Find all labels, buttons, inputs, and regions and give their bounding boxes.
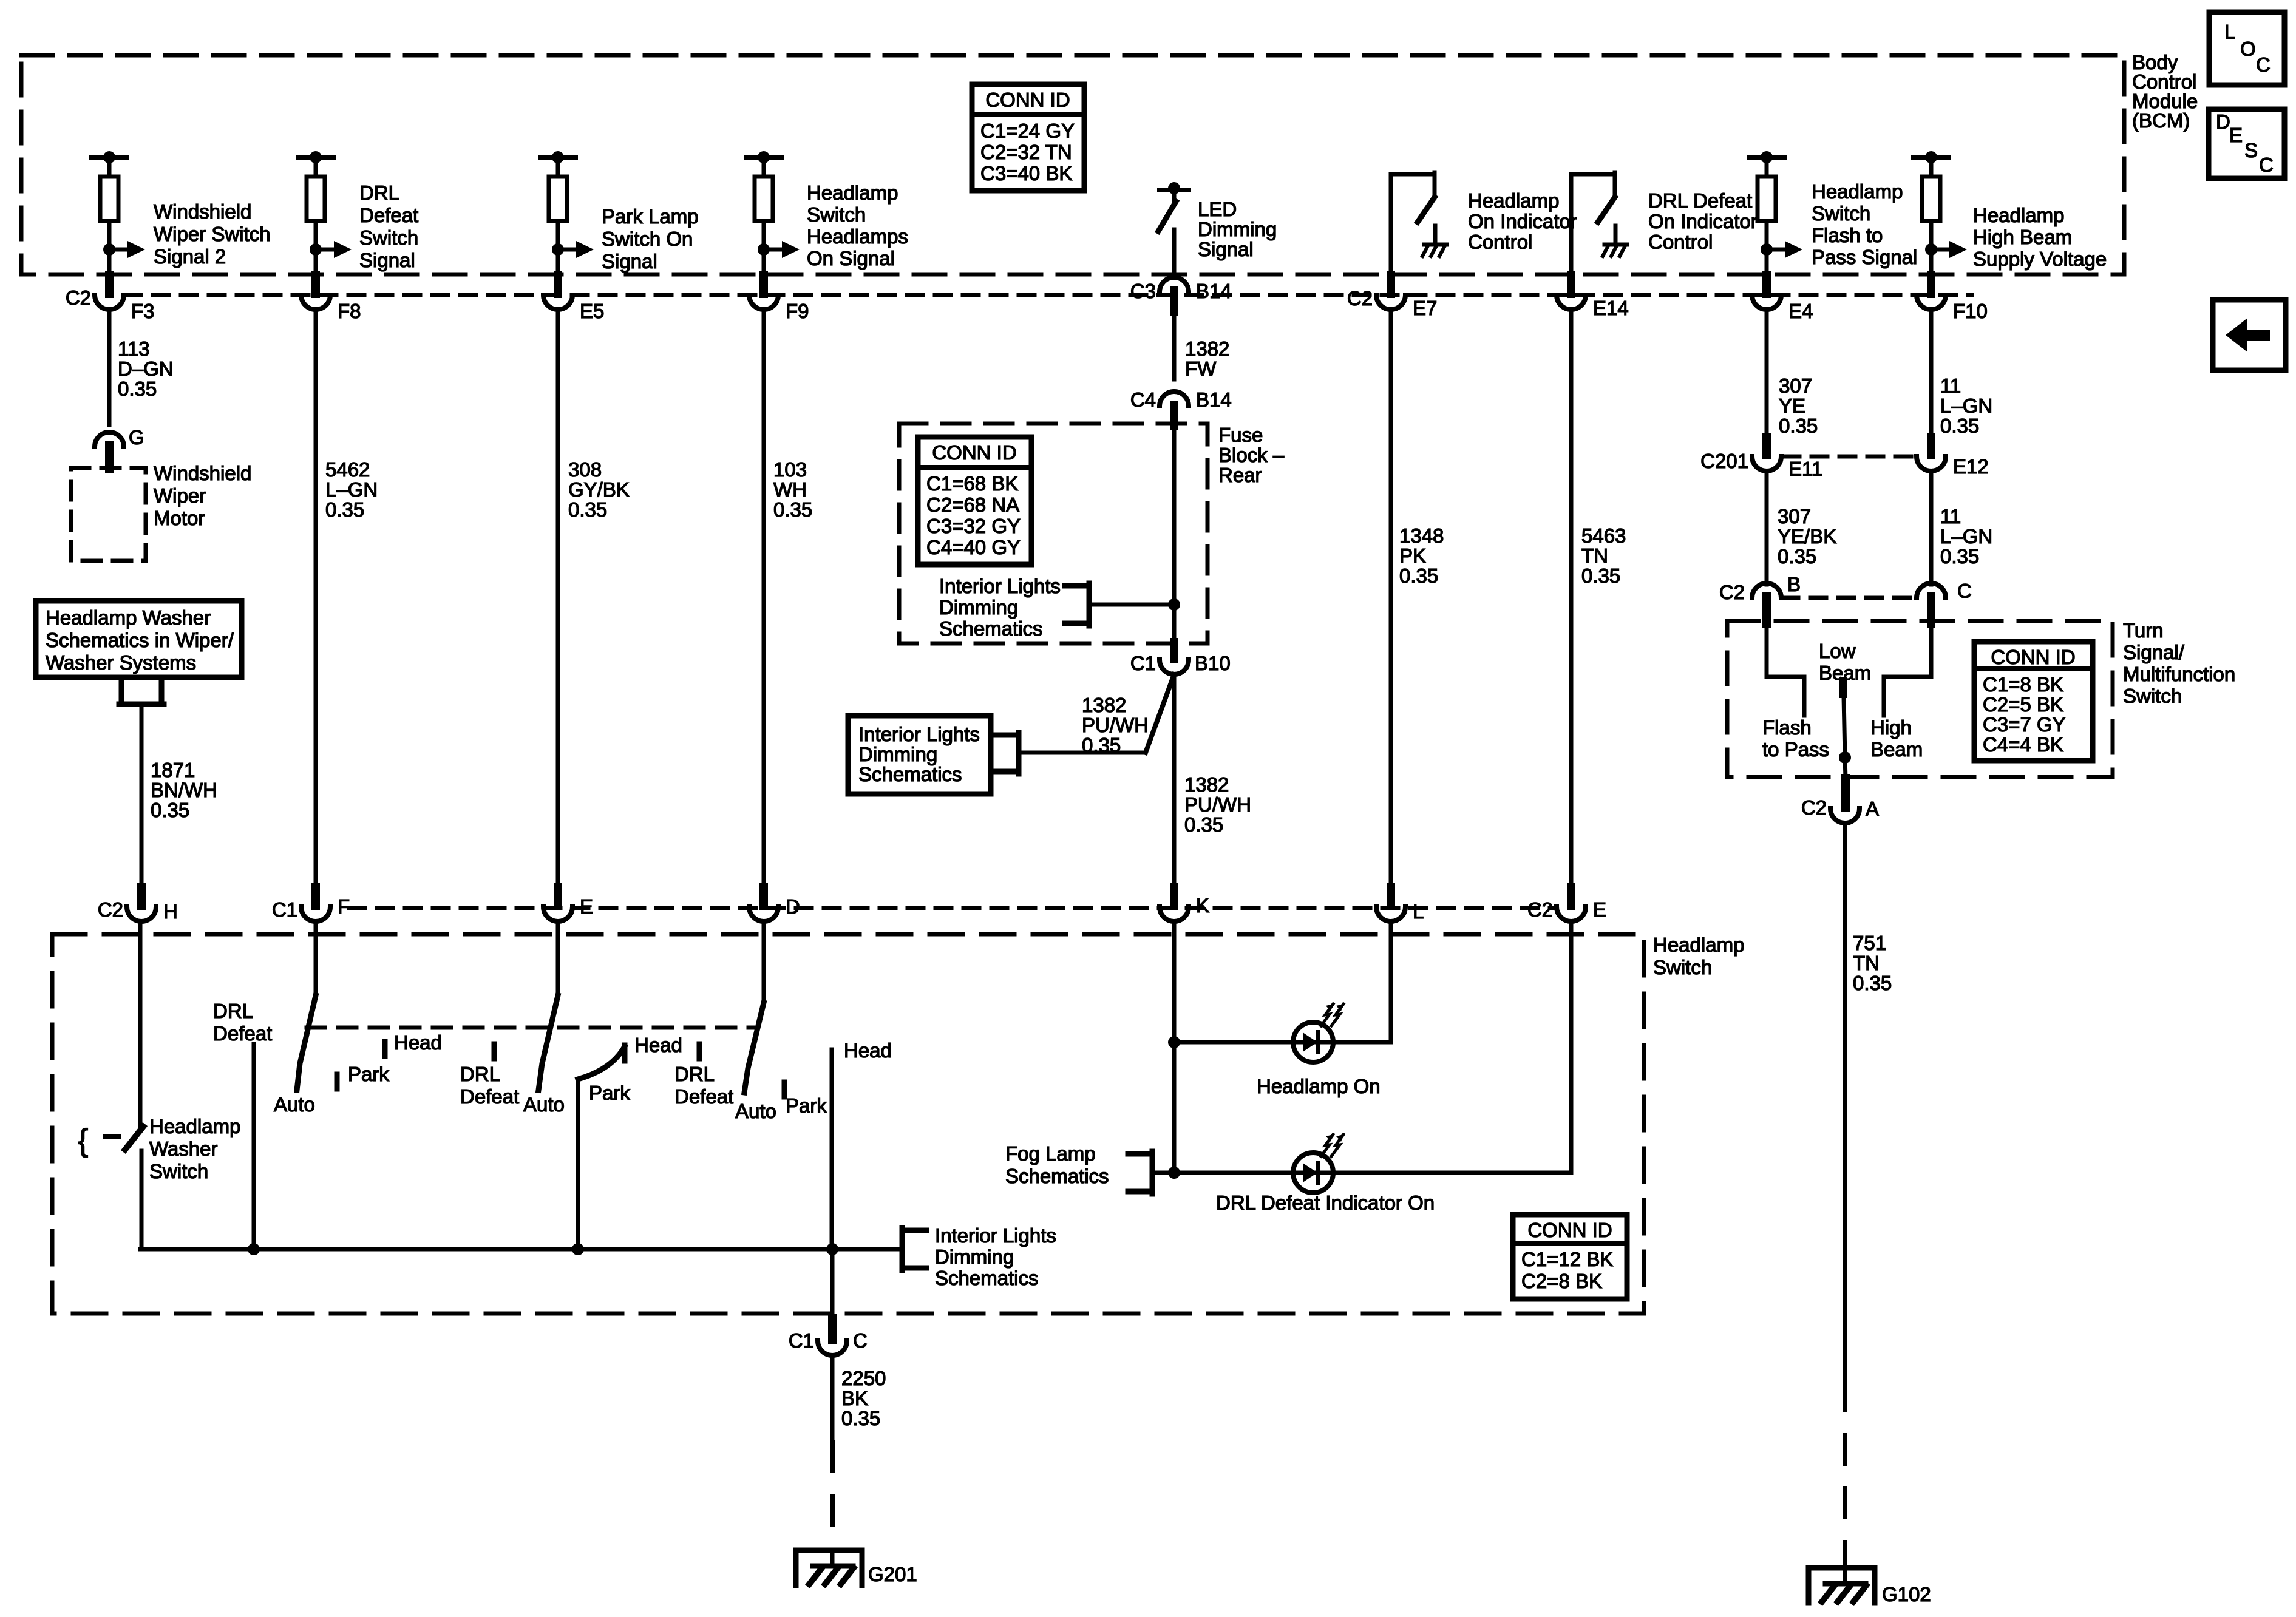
headlamp washer schematics reference box (36, 601, 242, 677)
svg-text:Flash to: Flash to (1812, 224, 1883, 246)
svg-text:BK: BK (841, 1387, 868, 1409)
connector pin F8 (301, 276, 361, 322)
svg-text:751: 751 (1853, 932, 1886, 954)
svg-text:Schematics in Wiper/: Schematics in Wiper/ (46, 629, 234, 651)
svg-text:C1=12 BK: C1=12 BK (1521, 1248, 1613, 1270)
svg-text:Washer Systems: Washer Systems (46, 651, 196, 674)
svg-text:TN: TN (1853, 952, 1880, 974)
wafer 3 Head contact wire to rail (826, 1039, 892, 1255)
svg-text:Auto: Auto (274, 1093, 315, 1116)
svg-text:Low: Low (1819, 640, 1856, 662)
connector C201 pin E11 (1700, 437, 1822, 480)
svg-text:Interior Lights: Interior Lights (939, 575, 1061, 597)
connector C1 pin F (272, 887, 350, 921)
BCM output driver (resistor) for pin F10 (1914, 151, 1967, 274)
wire 1382 FW (1174, 310, 1229, 380)
svg-text:Pass Signal: Pass Signal (1812, 246, 1917, 268)
connector C4 pin B14 (fuse block) (1130, 388, 1232, 425)
svg-text:O: O (2240, 38, 2256, 60)
connector C1 pin C (headlamp switch output) (789, 1249, 868, 1355)
svg-text:C1=8 BK: C1=8 BK (1983, 673, 2063, 696)
svg-text:C2: C2 (1527, 898, 1553, 921)
svg-text:C1: C1 (1130, 652, 1156, 674)
svg-text:G: G (129, 426, 144, 449)
connector C2 pin E7 (1347, 276, 1438, 319)
reference tab of interior lights box (994, 733, 1019, 774)
svg-text:On Signal: On Signal (807, 247, 895, 269)
svg-text:F10: F10 (1953, 300, 1988, 322)
svg-text:C: C (2259, 154, 2274, 176)
svg-text:1871: 1871 (151, 759, 195, 781)
svg-text:E14: E14 (1593, 297, 1629, 319)
svg-text:Schematics: Schematics (858, 763, 962, 785)
svg-text:1382: 1382 (1184, 773, 1229, 796)
wire 5463 TN 0.35 (1571, 310, 1626, 887)
interior lights dimming schematics tab (headlamp switch) (902, 1224, 1056, 1289)
wire 113 D-GN 0.35 (109, 310, 174, 425)
DRL defeat indicator LED (1168, 921, 1571, 1214)
svg-text:307: 307 (1779, 375, 1812, 397)
wafer 3 Park contact (784, 1082, 827, 1117)
svg-text:Switch: Switch (359, 226, 418, 249)
svg-text:Headlamp Washer: Headlamp Washer (46, 606, 211, 629)
wire 2250 BK 0.35 (832, 1355, 886, 1443)
svg-text:PK: PK (1399, 544, 1426, 567)
svg-text:DRL: DRL (359, 181, 399, 204)
signal label: DRL Defeat On Indicator Control (1648, 189, 1758, 253)
svg-text:YE: YE (1779, 395, 1805, 417)
signal label: Headlamp Switch Flash to Pass Signal (1812, 180, 1917, 268)
svg-text:C2: C2 (1719, 581, 1745, 603)
svg-text:Flash: Flash (1762, 716, 1812, 739)
svg-text:5462: 5462 (325, 458, 370, 481)
svg-text:Park Lamp: Park Lamp (602, 205, 699, 228)
ground G201 (796, 1550, 917, 1585)
svg-text:0.35: 0.35 (325, 498, 364, 521)
wire 307 YE/BK 0.35 (1767, 471, 1836, 585)
svg-text:Rear: Rear (1218, 464, 1262, 486)
svg-text:C2: C2 (1801, 796, 1827, 819)
BCM output driver (resistor) for pin F9 (746, 151, 800, 274)
svg-text:B10: B10 (1195, 652, 1231, 674)
svg-text:Head: Head (394, 1031, 442, 1054)
svg-text:E12: E12 (1953, 455, 1989, 478)
CONN ID table for turn signal switch (1974, 642, 2093, 761)
svg-text:C: C (2256, 53, 2271, 76)
svg-text:On Indicator: On Indicator (1648, 210, 1758, 232)
svg-text:CONN ID: CONN ID (932, 441, 1016, 464)
svg-text:DRL: DRL (213, 1000, 253, 1022)
svg-text:C1: C1 (789, 1329, 814, 1352)
windshield wiper motor label (154, 462, 251, 529)
BCM output driver (resistor) for pin E4 (1749, 151, 1802, 274)
fuse block - rear dashed box (899, 424, 1207, 643)
svg-text:Defeat: Defeat (213, 1022, 272, 1045)
svg-text:Headlamp: Headlamp (149, 1115, 240, 1137)
svg-text:Head: Head (844, 1039, 892, 1062)
svg-text:C4=40 GY: C4=40 GY (926, 536, 1021, 558)
wafer 2 movable blade (from pin E) (538, 921, 558, 1090)
CONN ID table for fuse block (918, 437, 1031, 564)
wafer 1 Head contact (385, 1031, 442, 1056)
connector pin D (headlamp switch) (749, 887, 800, 921)
svg-text:On Indicator: On Indicator (1468, 210, 1577, 232)
svg-text:C3: C3 (1130, 280, 1156, 302)
signal label: Headlamp High Beam Supply Voltage (1973, 204, 2107, 270)
svg-text:DRL Defeat: DRL Defeat (1648, 189, 1752, 212)
svg-text:B: B (1787, 573, 1801, 595)
connector C2 pin H (98, 887, 178, 923)
svg-text:C3=7 GY: C3=7 GY (1983, 713, 2066, 736)
connector pin F10 (1917, 276, 1988, 322)
svg-text:0.35: 0.35 (1581, 564, 1620, 587)
headlamp switch dashed box (52, 934, 1644, 1314)
svg-text:Headlamp: Headlamp (1653, 934, 1744, 956)
svg-text:Schematics: Schematics (935, 1267, 1039, 1289)
svg-text:WH: WH (773, 478, 807, 501)
svg-text:Signal: Signal (1198, 238, 1254, 260)
svg-text:YE/BK: YE/BK (1778, 525, 1836, 547)
svg-text:Control: Control (1468, 231, 1532, 253)
svg-text:PU/WH: PU/WH (1082, 714, 1149, 736)
turn signal switch label (2123, 619, 2235, 707)
svg-text:Signal/: Signal/ (2123, 641, 2185, 663)
wire 1871 BN/WH 0.35 (141, 704, 217, 887)
svg-text:Park: Park (786, 1094, 827, 1117)
svg-text:0.35: 0.35 (1853, 972, 1892, 994)
svg-text:C2: C2 (66, 286, 91, 309)
svg-text:{: { (78, 1123, 88, 1158)
svg-text:Headlamp On: Headlamp On (1257, 1075, 1381, 1097)
wafer linkage dashed line (307, 1026, 753, 1030)
svg-text:Headlamp: Headlamp (1468, 189, 1559, 212)
connector C1 pin B10 (1130, 642, 1231, 674)
svg-text:Defeat: Defeat (460, 1085, 519, 1108)
svg-text:Schematics: Schematics (939, 617, 1043, 640)
svg-text:B14: B14 (1196, 280, 1232, 302)
BCM output driver (resistor) for pin F3 (92, 151, 145, 274)
svg-text:0.35: 0.35 (841, 1407, 880, 1429)
wafer 2 Park-Head bridged contact arc (578, 1034, 682, 1104)
svg-text:D: D (786, 895, 800, 918)
fuse block label (1218, 424, 1285, 486)
svg-text:11: 11 (1940, 375, 1961, 397)
svg-text:C2=32 TN: C2=32 TN (980, 141, 1072, 163)
svg-text:Dimming: Dimming (1198, 218, 1277, 240)
svg-text:307: 307 (1778, 505, 1811, 527)
svg-text:Turn: Turn (2123, 619, 2164, 642)
svg-text:2250: 2250 (841, 1367, 886, 1389)
svg-text:5463: 5463 (1581, 524, 1626, 547)
connector pin E4 (1752, 276, 1813, 322)
svg-text:0.35: 0.35 (1778, 545, 1816, 568)
svg-text:E4: E4 (1788, 300, 1813, 322)
svg-text:0.35: 0.35 (1184, 813, 1223, 836)
svg-text:C: C (1957, 580, 1972, 602)
svg-text:C1: C1 (272, 898, 297, 921)
svg-text:D: D (2216, 110, 2230, 133)
svg-text:Supply Voltage: Supply Voltage (1973, 248, 2107, 270)
wire 308 GY/BK 0.35 (558, 310, 630, 887)
svg-text:Block –: Block – (1218, 444, 1285, 466)
svg-text:Beam: Beam (1870, 738, 1923, 761)
wire through fuse block (1172, 424, 1177, 642)
wire 1348 PK 0.35 (1391, 310, 1444, 887)
svg-text:Switch: Switch (1653, 956, 1712, 978)
svg-text:113: 113 (118, 337, 150, 360)
ground G102 (1809, 1551, 1931, 1605)
svg-text:Park: Park (589, 1082, 630, 1104)
connector pin L (headlamp switch) (1376, 887, 1424, 923)
connector pin E12 (1917, 437, 1989, 478)
svg-text:F: F (338, 895, 350, 918)
unconnected wire segment to G102 (1843, 1382, 1847, 1551)
DESC reference box (2209, 109, 2284, 178)
svg-text:0.35: 0.35 (151, 799, 189, 821)
svg-text:B14: B14 (1196, 388, 1232, 411)
BCM output driver (resistor) for pin F8 (298, 151, 352, 274)
turn signal / multifunction switch dashed box (1727, 621, 2113, 777)
svg-text:103: 103 (773, 458, 807, 481)
signal label: Windshield Wiper Switch Signal 2 (154, 200, 271, 268)
svg-text:E11: E11 (1788, 458, 1822, 480)
svg-text:L–GN: L–GN (1940, 395, 1992, 417)
signal label: Headlamp On Indicator Control (1468, 189, 1577, 253)
svg-text:L–GN: L–GN (325, 478, 378, 501)
svg-text:S: S (2244, 139, 2258, 161)
svg-text:1382: 1382 (1082, 694, 1126, 716)
interior lights dimming schematics reference box (848, 716, 991, 794)
headlamp washer switch (78, 921, 240, 1249)
svg-text:308: 308 (568, 458, 602, 481)
svg-text:0.35: 0.35 (1940, 415, 1979, 437)
connector C2 pin B (turn signal switch) (1719, 573, 1801, 624)
LOC reference box (2209, 12, 2284, 85)
wafer 2 DRL Defeat contact (460, 1044, 519, 1108)
headlamp switch label (1653, 934, 1744, 978)
svg-text:High: High (1870, 716, 1912, 739)
windshield wiper motor dashed box (71, 468, 146, 561)
CONN ID table for headlamp switch (1513, 1215, 1627, 1299)
svg-text:C3=40 BK: C3=40 BK (980, 162, 1072, 185)
signal label: Headlamp Switch Headlamps On Signal (807, 181, 908, 269)
svg-text:C2: C2 (98, 898, 123, 921)
svg-text:E: E (580, 895, 593, 918)
svg-text:Switch: Switch (807, 203, 866, 226)
svg-text:Switch: Switch (1812, 202, 1870, 225)
svg-text:Dimming: Dimming (939, 596, 1018, 619)
svg-text:11: 11 (1940, 505, 1961, 527)
svg-text:0.35: 0.35 (1082, 734, 1121, 756)
headlamp on indicator LED (1168, 921, 1391, 1173)
signal label: Park Lamp Switch On Signal (602, 205, 699, 273)
DRL defeat on indicator control driver in BCM (1571, 172, 1627, 274)
svg-text:C201: C201 (1700, 450, 1748, 472)
svg-text:L: L (2224, 21, 2235, 43)
svg-text:(BCM): (BCM) (2132, 109, 2190, 132)
svg-text:BN/WH: BN/WH (151, 779, 217, 801)
unconnected wire segment to G201 (830, 1443, 835, 1550)
wafer 3 DRL Defeat contact (674, 1044, 733, 1108)
svg-text:Headlamp: Headlamp (1973, 204, 2064, 226)
svg-text:Signal 2: Signal 2 (154, 245, 226, 268)
svg-text:Headlamp: Headlamp (807, 181, 898, 204)
connector interface dashed line (headlamp switch row) (349, 906, 1554, 910)
wire 5462 L-GN 0.35 (316, 310, 378, 887)
svg-text:C2=5 BK: C2=5 BK (1983, 693, 2063, 716)
svg-text:GY/BK: GY/BK (568, 478, 630, 501)
CONN ID table for BCM connectors (972, 84, 1084, 191)
svg-text:0.35: 0.35 (568, 498, 607, 521)
connector pin K (headlamp switch) (1160, 887, 1209, 921)
svg-text:E: E (2229, 124, 2243, 146)
svg-text:FW: FW (1185, 358, 1217, 380)
flash to pass contact (1762, 624, 1829, 761)
Body Control Module (BCM) dashed box (21, 55, 2124, 274)
wire 11 L-GN 0.35 (upper) (1931, 310, 1992, 438)
svg-text:G102: G102 (1882, 1583, 1931, 1605)
svg-text:0.35: 0.35 (1399, 564, 1438, 587)
BCM output driver (resistor) for pin E5 (540, 151, 594, 274)
svg-text:Switch: Switch (2123, 685, 2182, 707)
svg-text:Fuse: Fuse (1218, 424, 1263, 446)
low beam pole (1819, 640, 1871, 778)
signal label: DRL Defeat Switch Signal (359, 181, 418, 271)
svg-text:Interior Lights: Interior Lights (935, 1224, 1056, 1247)
high beam contact (1870, 624, 1931, 761)
wire 751 TN 0.35 (1845, 823, 1892, 1382)
svg-text:Windshield: Windshield (154, 200, 251, 223)
svg-text:C1=24 GY: C1=24 GY (980, 120, 1075, 142)
svg-text:E: E (1593, 898, 1606, 921)
svg-text:1348: 1348 (1399, 524, 1444, 547)
svg-text:CONN ID: CONN ID (1527, 1219, 1612, 1241)
svg-text:L: L (1413, 900, 1424, 923)
left-arrow navigation box (2213, 300, 2286, 370)
svg-text:TN: TN (1581, 544, 1608, 567)
wafer 2 Park contact wire to rail (572, 1079, 584, 1255)
LED dimming signal driver switch in BCM (1158, 182, 1189, 274)
svg-text:C: C (853, 1329, 868, 1352)
svg-text:Fog Lamp: Fog Lamp (1005, 1142, 1096, 1165)
svg-text:Park: Park (348, 1063, 389, 1085)
svg-text:Auto: Auto (735, 1100, 776, 1122)
svg-text:Wiper Switch: Wiper Switch (154, 223, 271, 245)
svg-text:Switch: Switch (149, 1160, 208, 1182)
svg-text:K: K (1196, 894, 1209, 917)
svg-text:Auto: Auto (523, 1093, 565, 1116)
svg-text:Headlamp: Headlamp (1812, 180, 1903, 203)
svg-text:1382: 1382 (1185, 337, 1229, 360)
wire 11 L-GN 0.35 (lower) (1931, 471, 1992, 585)
svg-text:E5: E5 (580, 300, 604, 322)
connector G to wiper motor (95, 426, 144, 469)
svg-text:C3=32 GY: C3=32 GY (926, 515, 1021, 537)
svg-text:Defeat: Defeat (359, 204, 418, 226)
svg-text:Washer: Washer (149, 1137, 217, 1160)
svg-text:Dimming: Dimming (935, 1246, 1014, 1268)
svg-text:PU/WH: PU/WH (1184, 793, 1251, 816)
svg-text:0.35: 0.35 (1779, 415, 1818, 437)
svg-text:Headlamps: Headlamps (807, 225, 908, 248)
svg-text:F8: F8 (338, 300, 361, 322)
svg-text:LED: LED (1198, 198, 1237, 220)
svg-text:C2=68 NA: C2=68 NA (926, 493, 1019, 516)
wafer 1 DRL Defeat contact wire (213, 1000, 272, 1255)
svg-text:Head: Head (634, 1034, 682, 1056)
svg-text:Motor: Motor (154, 507, 205, 529)
wire 1382 PU/WH 0.35 to headlamp switch (1174, 674, 1251, 887)
wire 103 WH 0.35 (764, 310, 812, 887)
svg-text:C2: C2 (1347, 287, 1373, 310)
svg-text:H: H (163, 900, 178, 923)
svg-text:Switch On: Switch On (602, 228, 693, 250)
connector C2 pin F3 (66, 276, 155, 322)
connector C2 pin E (headlamp switch right) (1527, 887, 1606, 921)
BCM label (2132, 51, 2198, 132)
svg-text:0.35: 0.35 (1940, 545, 1979, 568)
svg-text:0.35: 0.35 (118, 378, 157, 400)
svg-text:L–GN: L–GN (1940, 525, 1992, 547)
connector C2 pin A (1801, 778, 1879, 823)
reference fork under box (119, 679, 164, 704)
interior lights dimming schematics tab (fuse block) (939, 575, 1180, 640)
connector interface dashed line (C201 row) (1784, 455, 1915, 459)
connector interface dashed line (turn signal switch row) (1782, 596, 1915, 600)
svg-text:Multifunction: Multifunction (2123, 663, 2235, 685)
svg-text:Dimming: Dimming (858, 743, 937, 765)
wire 307 YE 0.35 (1767, 310, 1818, 438)
svg-text:A: A (1866, 798, 1879, 820)
fog lamp schematics tab (1005, 1142, 1174, 1194)
svg-text:High Beam: High Beam (1973, 226, 2072, 248)
svg-text:E7: E7 (1413, 297, 1437, 319)
wire 1382 PU/WH 0.35 tap to interior lights dimming (1019, 674, 1174, 756)
headlamp switch common rail (140, 1247, 902, 1252)
headlamp on indicator control driver in BCM (1391, 172, 1447, 274)
svg-text:D–GN: D–GN (118, 358, 174, 380)
svg-text:Wiper: Wiper (154, 484, 206, 507)
wafer 1 movable blade (from pin F) (297, 921, 316, 1090)
wafer 3 movable blade (from pin D) (744, 921, 764, 1093)
signal label: LED Dimming Signal (1198, 198, 1277, 260)
svg-text:G201: G201 (868, 1563, 917, 1585)
svg-text:Interior Lights: Interior Lights (858, 723, 980, 745)
svg-text:Schematics: Schematics (1005, 1165, 1109, 1187)
svg-text:DRL: DRL (460, 1063, 500, 1085)
svg-text:C1=68 BK: C1=68 BK (926, 472, 1018, 495)
connector C3 pin B14 (1130, 277, 1232, 311)
svg-text:CONN ID: CONN ID (985, 89, 1070, 111)
svg-text:C4=4 BK: C4=4 BK (1983, 733, 2063, 756)
svg-text:F9: F9 (786, 300, 809, 322)
svg-text:0.35: 0.35 (773, 498, 812, 521)
svg-text:Defeat: Defeat (674, 1085, 733, 1108)
connector pin E14 (1557, 276, 1629, 319)
connector pin E (headlamp switch) (543, 887, 593, 921)
svg-text:CONN ID: CONN ID (1991, 646, 2075, 668)
connector pin F9 (749, 276, 809, 322)
svg-text:Control: Control (1648, 231, 1713, 253)
svg-text:to Pass: to Pass (1762, 738, 1829, 761)
svg-text:Signal: Signal (359, 249, 415, 271)
svg-text:DRL: DRL (674, 1063, 715, 1085)
svg-text:C2=8 BK: C2=8 BK (1521, 1270, 1602, 1292)
connector interface dashed line (BCM row) (125, 293, 1972, 297)
svg-text:C4: C4 (1130, 388, 1156, 411)
svg-text:Signal: Signal (602, 250, 657, 273)
wafer 1 Park contact (337, 1063, 389, 1089)
